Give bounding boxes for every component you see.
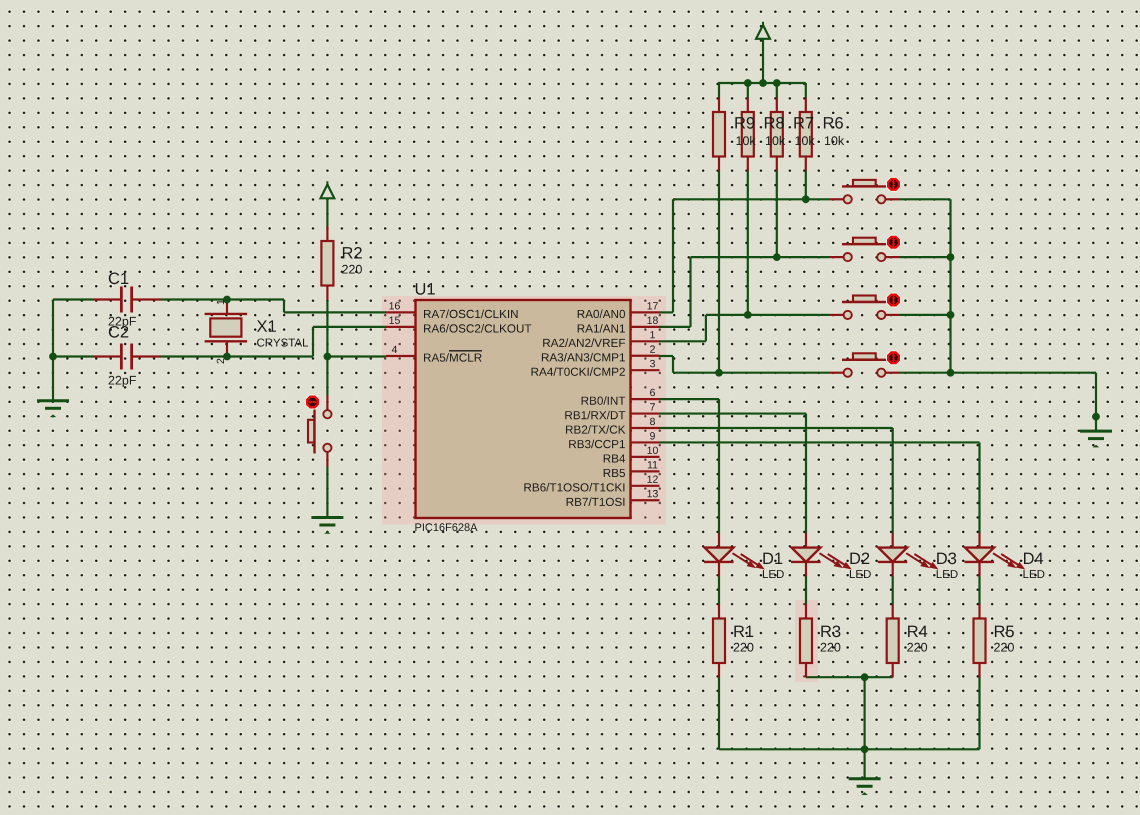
wire bottom bus	[719, 748, 980, 750]
LED D1	[704, 533, 784, 578]
highlight overlay around U1	[382, 296, 666, 525]
wire to pin 16	[284, 311, 386, 313]
pin number 12	[648, 476, 658, 483]
pin number 8	[650, 418, 655, 425]
pin number 18	[648, 317, 658, 325]
junction top bus R7	[773, 79, 781, 87]
ground (reset button)	[311, 518, 343, 534]
wire R9 column top	[718, 83, 720, 98]
pin 10 stub RB4	[631, 456, 660, 458]
wire C2 row left	[53, 355, 94, 357]
wire button row4 right	[900, 372, 951, 374]
wire R7 column top	[776, 83, 778, 98]
junction row1 R6	[802, 195, 810, 203]
wire R4 to mid node	[865, 676, 893, 678]
junction right ground stem	[1092, 413, 1100, 421]
wire mid node down	[863, 677, 865, 749]
pin label RA5/MCLR	[424, 351, 482, 362]
push-button switch row2	[829, 235, 901, 262]
pin 16 stub RA7	[386, 311, 416, 313]
wire button row2 right	[900, 256, 951, 258]
pin 3 stub RA4	[631, 369, 660, 371]
junction C2 left node	[49, 353, 57, 361]
push-button switch row1	[829, 177, 901, 204]
wire pin9 to D4	[659, 442, 980, 533]
wire left vertical C1-C2	[52, 300, 54, 357]
pin 12 stub RB6	[631, 485, 660, 487]
pin 8 stub RB2	[631, 427, 660, 429]
pin label RB3/CCP1	[569, 440, 625, 449]
pin label RA3/AN3/CMP1	[542, 353, 625, 362]
pin number 17	[648, 302, 658, 309]
pin label RB1/RX/DT	[565, 411, 625, 420]
pin 1 stub RA2	[631, 340, 660, 342]
pin number 1	[650, 331, 655, 338]
pin number 1 (crystal top, rotated)	[217, 300, 224, 305]
wire crystal pin2 drop	[226, 341, 228, 354]
wire C1 to crystal node	[160, 298, 285, 300]
resistor R5	[974, 604, 1014, 678]
pin label RA2/AN2/VREF	[543, 338, 625, 347]
highlight overlay around R3	[795, 600, 818, 682]
ground (buttons, right)	[1080, 431, 1112, 447]
resistor R8	[742, 98, 754, 172]
pin number 16	[390, 302, 400, 309]
wire power arrow to top bus	[762, 39, 764, 83]
wire MCLR node to pin 4	[327, 355, 386, 357]
LED D3	[878, 533, 958, 578]
pin label RB2/TX/CK	[566, 425, 625, 434]
pin 4 stub RA5	[386, 355, 416, 357]
pin label RB4	[604, 455, 626, 463]
pin 18 stub RA1	[631, 326, 660, 328]
pin label RB0/INT	[582, 396, 626, 405]
pin number 11	[648, 461, 658, 468]
wire row1 drop to pin17	[659, 199, 673, 312]
pin 17 stub RA0	[631, 311, 660, 313]
pin 2 stub RA3	[631, 355, 660, 357]
wire R9 column bottom to row4	[718, 170, 720, 373]
wire row4 to right ground	[951, 373, 1097, 431]
resistor R9	[713, 98, 725, 172]
resistor R7	[771, 98, 783, 172]
pin 9 stub RB3	[631, 441, 660, 443]
pin 15 stub RA6	[386, 326, 416, 328]
resistor R4	[887, 604, 928, 678]
wire R8 column top	[747, 83, 749, 98]
junction mid node under R3 R4	[861, 673, 869, 681]
wire C2 to crystal pin2	[160, 355, 314, 357]
junction top bus power	[759, 79, 767, 87]
resistor R1	[713, 604, 753, 678]
wire R5 to bottom bus	[978, 677, 980, 749]
pin number 9	[650, 432, 655, 440]
pin 13 stub RB7	[631, 499, 660, 501]
pin 11 stub RB5	[631, 470, 660, 472]
pin label RA1/AN1	[578, 324, 625, 333]
LED D2	[791, 533, 871, 578]
wire right bus vertical	[949, 199, 951, 372]
wire C1 row left	[53, 298, 94, 300]
wire R3 to mid node	[806, 676, 865, 678]
pin label RB7/T1OSI	[567, 497, 625, 506]
junction right bus row4	[947, 369, 955, 377]
wire row3 drop to pin1	[659, 315, 706, 341]
pin number 6	[650, 389, 655, 396]
pin label RA4/T0CKI/CMP2	[532, 367, 625, 376]
wire button row3 left	[706, 314, 829, 316]
wire D4 to R5	[978, 576, 980, 605]
pin label RA0/AN0	[578, 310, 625, 319]
junction right bus row3	[947, 311, 955, 319]
wire button row4 left	[673, 372, 829, 374]
wire jog up to pin15 row	[312, 327, 314, 357]
wire button row1 left	[673, 198, 829, 200]
junction crystal pin1 node	[223, 296, 231, 304]
resistor R6	[800, 98, 812, 172]
wire row2 drop to pin18	[659, 257, 691, 327]
pin label RB5	[604, 469, 625, 477]
pin label RA6/OSC2/CLKOUT	[424, 324, 531, 333]
wire R6 column bottom to row1	[805, 170, 807, 199]
pin 6 stub RB0	[631, 398, 660, 400]
resistor R3	[800, 604, 840, 678]
pin number 4	[392, 346, 397, 353]
pin 7 stub RB1	[631, 412, 660, 414]
ground (bottom, LEDs)	[849, 779, 881, 795]
capacitor C1	[94, 273, 161, 329]
junction MCLR node	[324, 353, 332, 361]
pin label RA7/OSC1/CLKIN	[424, 310, 518, 319]
wire jog down to pin16 row	[283, 300, 285, 313]
pin number 2	[650, 345, 655, 352]
wire D3 to R4	[892, 576, 894, 605]
junction bottom bus ground	[861, 745, 869, 753]
wire to pin 15	[313, 326, 386, 328]
wire pin6 to D1	[659, 399, 719, 533]
junction right bus row2	[947, 253, 955, 261]
wire R7 column bottom to row2	[776, 170, 778, 257]
capacitor C2	[94, 326, 161, 387]
wire D2 to R3	[805, 576, 807, 605]
wire top bus	[718, 82, 806, 84]
pin number 15	[390, 317, 400, 324]
push-button switch row4	[829, 350, 901, 377]
LED D4	[965, 533, 1045, 578]
push-button switch (reset, vertical)	[305, 394, 332, 466]
junction row3 R8	[744, 311, 752, 319]
pin number 10	[648, 447, 658, 454]
power symbol (left, +V arrow)	[321, 181, 335, 198]
wire R1 to bottom bus	[718, 677, 720, 749]
pin number 13	[648, 490, 658, 498]
power symbol (top right, +V arrow)	[756, 22, 770, 39]
wire power arrow to R2	[326, 199, 328, 228]
pin number 3	[650, 360, 655, 367]
pin label RB6/T1OSO/T1CKI	[524, 483, 624, 492]
wire R6 column top	[805, 83, 807, 98]
wire button row1 right	[900, 198, 951, 200]
wire R2 bottom to MCLR node	[326, 301, 328, 396]
wire D1 to R1	[718, 576, 720, 605]
pin number 2 (crystal bottom, rotated)	[217, 359, 224, 364]
junction row4 R9	[715, 369, 723, 377]
wire left vertical to ground	[52, 357, 54, 401]
wire pin7 to D2	[659, 414, 806, 533]
value labels R9 R8 R7 R6	[735, 117, 844, 145]
wire button row2 left	[691, 256, 830, 258]
wire row4 rise to pin2	[659, 356, 673, 373]
op-amp U1 PIC16F628A body	[415, 283, 630, 531]
junction row2 R7	[773, 253, 781, 261]
push-button switch row3	[829, 292, 901, 319]
junction top bus R8	[744, 79, 752, 87]
wire pin8 to D3	[659, 428, 893, 533]
wire button SW to ground	[326, 467, 328, 518]
crystal X1	[205, 314, 309, 347]
wire bottom bus to ground	[863, 749, 865, 778]
resistor R2	[321, 227, 362, 301]
wire crystal pin1 drop	[226, 302, 228, 314]
wire R8 column bottom to row3	[747, 170, 749, 315]
wire button row3 right	[900, 314, 951, 316]
ground (left, crystal caps)	[37, 401, 69, 417]
junction crystal pin2 node	[223, 353, 231, 361]
pin number 7	[650, 403, 655, 410]
